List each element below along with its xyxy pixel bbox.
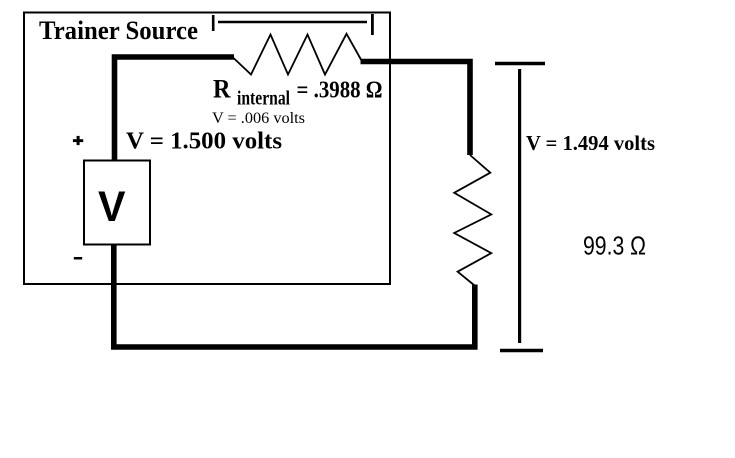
svg-text:V = .006 volts: V = .006 volts	[212, 110, 305, 127]
svg-text:V = 1.500 volts: V = 1.500 volts	[126, 128, 282, 154]
svg-text:internal: internal	[237, 88, 290, 110]
voltage source V (voltmeter box)	[84, 161, 150, 245]
wire: source positive terminal up and right to R_internal	[115, 57, 235, 160]
label: Trainer Source	[39, 16, 198, 45]
box: Trainer Source enclosure	[24, 13, 390, 285]
svg-text:V = 1.494 volts: V = 1.494 volts	[526, 131, 655, 155]
wire: R_internal right side over to load resistor	[361, 62, 471, 156]
label: V = 1.494 volts (load voltage)	[526, 131, 655, 155]
label: + terminal	[73, 136, 83, 145]
label: V = 1.500 volts (source EMF)	[126, 128, 282, 154]
svg-text:Trainer Source: Trainer Source	[39, 16, 198, 45]
label: - terminal	[74, 257, 82, 260]
svg-text:= .3988 Ω: = .3988 Ω	[297, 78, 383, 104]
measurement bracket: load voltage	[495, 64, 545, 351]
label: R internal value	[213, 75, 383, 110]
svg-text:R: R	[213, 75, 231, 104]
svg-text:V: V	[98, 184, 126, 231]
bracket over resistor R_internal	[213, 14, 372, 35]
svg-text:99.3 Ω: 99.3 Ω	[583, 230, 646, 260]
label: V = .006 volts (drop across R_internal)	[212, 110, 305, 127]
resistor R_internal (zigzag)	[233, 34, 362, 75]
resistor R_load 99.3 ohm (vertical zigzag)	[454, 155, 491, 286]
wire: load bottom, bottom return to source negative terminal	[114, 245, 475, 347]
label: 99.3 ohms (load resistance)	[583, 230, 646, 260]
